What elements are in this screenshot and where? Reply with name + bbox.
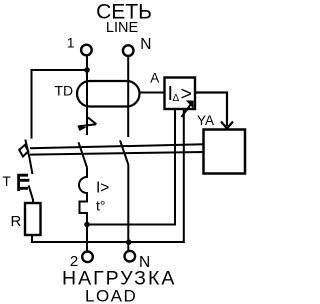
solenoid YA box — [204, 130, 246, 174]
node junction on conductor N at line B — [126, 239, 132, 245]
node junction on conductor 1 at y70 — [84, 67, 90, 73]
test button T moving contact — [29, 185, 33, 200]
svg-text:I>: I> — [96, 180, 109, 197]
differential relay IΔ> — [165, 78, 196, 118]
svg-text:T: T — [3, 174, 11, 189]
transformer TD toroid — [77, 81, 140, 107]
overcurrent release on conductor 1 (magnetic + thermal) — [79, 168, 87, 252]
test button T actuator — [18, 174, 29, 191]
wire relay supply tap (outer) down to line B — [32, 109, 184, 242]
node junction on conductor 1 at line A — [84, 222, 90, 228]
wire conductor N from terminal N down to fixed contact — [127, 56, 129, 137]
switch pole N moving contact — [120, 140, 128, 164]
svg-text:A: A — [150, 71, 159, 86]
svg-text:N: N — [140, 36, 151, 53]
mechanical linkage double line to YA — [30, 144, 204, 148]
wire TD secondary output to relay — [141, 92, 165, 94]
switch pole 1 moving contact — [79, 142, 88, 167]
svg-text:1: 1 — [67, 35, 75, 51]
wire relay supply tap (inner) down to line A — [87, 109, 175, 225]
wire conductor 1 (phase) from terminal 1 down to fixed contact — [86, 55, 88, 135]
wire relay output to YA solenoid with arrow — [195, 93, 227, 127]
svg-text:R: R — [11, 213, 22, 230]
terminal N top — [123, 45, 134, 56]
svg-text:YA: YA — [197, 113, 214, 128]
wire from left vertical through linkage square to test button contact — [25, 140, 32, 175]
mechanical linkage end square — [19, 145, 28, 157]
terminal N bottom — [125, 251, 136, 262]
wire test tap from conductor 1 to left vertical — [32, 70, 88, 139]
svg-text:LINE: LINE — [106, 20, 139, 36]
svg-text:t°: t° — [96, 198, 106, 214]
svg-text:LOAD: LOAD — [85, 287, 137, 304]
terminal 2 — [82, 251, 93, 262]
trip arrow on conductor 1 — [77, 117, 96, 131]
svg-text:TD: TD — [55, 83, 74, 99]
wire test contact to resistor — [32, 199, 34, 203]
svg-text:Δ: Δ — [173, 93, 180, 104]
resistor R — [25, 203, 41, 235]
terminal 1 — [81, 45, 92, 56]
wire conductor N lower segment — [127, 165, 129, 251]
